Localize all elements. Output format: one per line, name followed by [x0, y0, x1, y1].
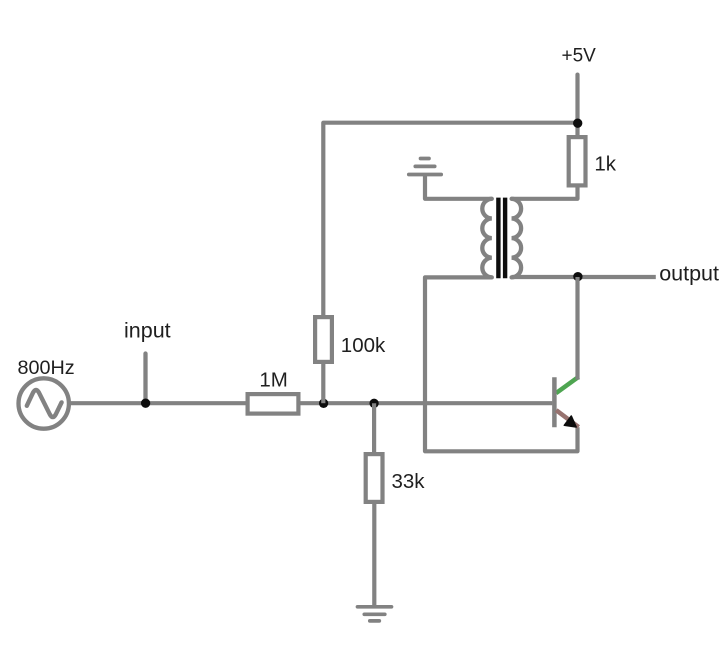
- node input probe lead: [143, 354, 147, 404]
- wire 1k to transformer right top: [512, 184, 578, 199]
- transistor Q1 collector lead (green): [556, 377, 579, 393]
- voltage source V1 (AC 800Hz): [19, 378, 69, 428]
- junction +5V node: [573, 119, 582, 128]
- resistor 1M: [248, 394, 299, 414]
- junction input node: [141, 399, 150, 408]
- svg-text:100k: 100k: [341, 334, 386, 357]
- wire feedback: 100k up and over to +5V node: [323, 123, 577, 317]
- wire transformer right bottom to output: [512, 275, 656, 279]
- resistor 1k: [569, 137, 586, 185]
- ground G1 (top, inverted): [409, 159, 441, 175]
- junction node B (33k tap): [369, 399, 378, 408]
- svg-text:1k: 1k: [594, 152, 616, 175]
- transformer T1 left winding: [482, 199, 492, 278]
- svg-text:33k: 33k: [392, 470, 426, 493]
- svg-text:input: input: [124, 319, 171, 343]
- transistor Q1 emitter arrow: [564, 416, 576, 427]
- ground G2 (bottom): [358, 607, 392, 621]
- svg-text:1M: 1M: [259, 369, 287, 392]
- svg-text:output: output: [659, 262, 719, 286]
- wire +5V rail stem: [575, 75, 579, 137]
- wire 33k to ground: [372, 502, 376, 607]
- resistor 100k: [315, 317, 332, 362]
- svg-text:800Hz: 800Hz: [18, 357, 75, 379]
- wire source to 1M: [69, 401, 246, 405]
- wire transformer left bottom, down, along bottom to emitter: [425, 277, 578, 451]
- wire collector vertical: [575, 277, 579, 380]
- junction output node: [573, 272, 582, 281]
- transformer T1 core: [498, 198, 505, 279]
- transformer T1 right winding: [512, 199, 522, 278]
- wire ground G1 to transformer left top: [425, 176, 492, 199]
- svg-text:+5V: +5V: [562, 46, 597, 67]
- transistor Q1 base bar: [552, 377, 557, 427]
- wire 100k bottom lead: [321, 362, 325, 403]
- wire 1M to transistor base: [298, 401, 552, 405]
- wire 33k top lead: [372, 403, 376, 453]
- transistor Q1 emitter lead (brown): [556, 410, 578, 427]
- resistor 33k: [366, 454, 383, 502]
- junction node A (1M / 100k): [319, 399, 328, 408]
